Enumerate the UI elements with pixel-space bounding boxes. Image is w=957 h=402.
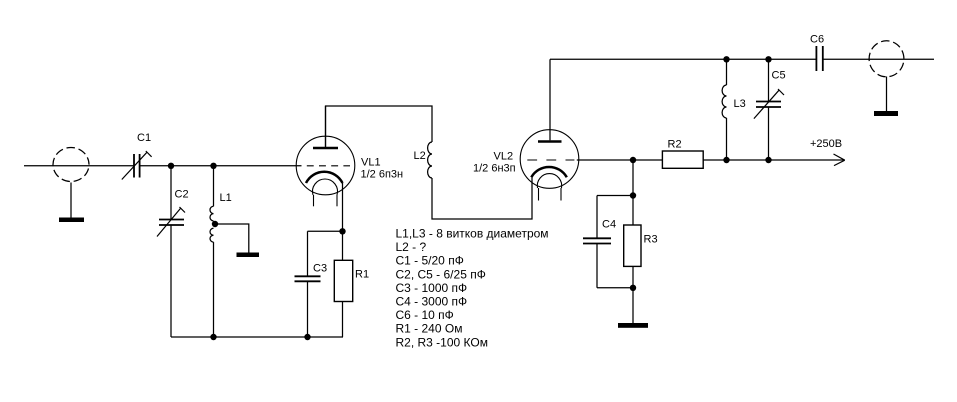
resistor R2: [662, 151, 703, 168]
wire R1 lower: [342, 302, 344, 338]
wire C4 lower: [596, 244, 598, 288]
tube VL2 cathode: [531, 167, 567, 177]
wire input horizontal: [24, 165, 134, 167]
svg-text:C6: C6: [810, 34, 824, 46]
inductor L2: [428, 142, 432, 178]
svg-text:+250В: +250В: [810, 138, 842, 150]
svg-text:C3 - 1000 пФ: C3 - 1000 пФ: [396, 281, 468, 295]
wire C1 to VL1 grid: [140, 165, 302, 167]
wire VL2 anode lead: [549, 59, 551, 140]
ground (R3): [618, 323, 648, 328]
tube VL2 grid: [527, 159, 574, 161]
tube VL1 envelope: [296, 136, 355, 195]
wire L1 branch upper: [213, 166, 215, 207]
wire L3 lower: [726, 118, 728, 160]
wire C5 upper: [768, 59, 770, 101]
wire C4 top tee: [597, 195, 633, 197]
capacitor C5: [756, 102, 781, 108]
wire VL2 anode top: [550, 58, 816, 60]
svg-text:C6 - 10 пФ: C6 - 10 пФ: [396, 308, 454, 322]
wire input connector stem: [70, 183, 72, 218]
C2 variable arrow: [157, 207, 185, 237]
wire VL1 anode to L2: [326, 106, 433, 148]
svg-text:R2, R3 -100 КОм: R2, R3 -100 КОм: [396, 335, 488, 349]
wire R3 to ground: [632, 288, 634, 323]
capacitor C1: [134, 154, 140, 178]
wire VL2 grid to R2: [577, 159, 663, 161]
parts list text: [396, 227, 549, 350]
inductor L3: [722, 85, 726, 118]
svg-text:VL2: VL2: [494, 151, 514, 163]
svg-text:C3: C3: [313, 263, 327, 275]
supply arrow head: [834, 154, 845, 166]
svg-text:VL1: VL1: [361, 157, 381, 169]
node bottom C3: [304, 334, 310, 340]
node VL1 cathode junction: [339, 228, 345, 234]
ground (output): [874, 111, 898, 116]
resistor R1: [334, 260, 352, 301]
capacitor C6: [816, 46, 822, 71]
svg-text:C1: C1: [137, 132, 151, 144]
wire C6 to output: [823, 58, 934, 60]
wire L2 to VL2 cathode: [432, 177, 532, 219]
wire L1 tap to ground: [214, 224, 249, 253]
svg-text:1/2 6н3п: 1/2 6н3п: [473, 163, 516, 175]
ground (L1 tap): [237, 253, 260, 258]
svg-text:R2: R2: [668, 139, 682, 151]
svg-text:C4: C4: [602, 219, 616, 231]
node C4 top tee: [630, 192, 636, 198]
C1 variable arrow: [122, 151, 152, 180]
svg-text:L1,L3 - 8 витков диаметром: L1,L3 - 8 витков диаметром: [396, 227, 549, 241]
node C5 bottom: [765, 157, 771, 163]
svg-text:R3: R3: [644, 234, 658, 246]
wire R1 upper: [342, 231, 344, 260]
wire C3 upper: [307, 231, 309, 276]
svg-text:C2, C5 - 6/25 пФ: C2, C5 - 6/25 пФ: [396, 267, 486, 281]
wire R3 upper: [632, 196, 634, 226]
node junction R3 branch: [630, 157, 636, 163]
node bottom L1: [210, 334, 216, 340]
wire C5 lower: [768, 107, 770, 160]
wire C4 upper: [596, 196, 598, 239]
wire R3 branch upper: [632, 160, 634, 196]
svg-text:R1: R1: [355, 269, 369, 281]
svg-text:C1 - 5/20 пФ: C1 - 5/20 пФ: [396, 254, 464, 268]
inductor L1: [210, 206, 214, 242]
node top C5: [765, 56, 771, 62]
node junction C2: [168, 163, 174, 169]
wire C2 branch upper: [170, 166, 172, 220]
tube VL1 heater: [313, 179, 338, 206]
C5 variable arrow: [754, 89, 784, 119]
tube VL1 cathode: [306, 172, 343, 183]
node L1 tap: [212, 221, 218, 227]
tube VL2 anode: [538, 140, 562, 143]
tube VL2 envelope: [520, 130, 579, 189]
svg-text:L2 - ?: L2 - ?: [396, 240, 427, 254]
capacitor C2: [159, 220, 184, 226]
svg-text:L2: L2: [414, 150, 426, 162]
node top L3: [723, 56, 729, 62]
svg-text:R1 - 240 Ом: R1 - 240 Ом: [396, 322, 463, 336]
tube VL1 grid: [307, 165, 350, 167]
svg-text:1/2 6п3н: 1/2 6п3н: [361, 169, 404, 181]
wire C2 branch lower: [170, 225, 172, 337]
wire cathode junction to C3: [308, 230, 343, 232]
node L3 bottom: [723, 157, 729, 163]
svg-text:C4 - 3000 пФ: C4 - 3000 пФ: [396, 295, 468, 309]
wire R3 lower: [632, 266, 634, 287]
wire VL1 cathode lead: [342, 183, 344, 231]
wire VL1 anode lead: [325, 106, 327, 147]
svg-text:L3: L3: [734, 98, 746, 110]
wire R2 to +250V arrow: [703, 159, 844, 161]
wire output connector stem: [886, 77, 888, 112]
tube VL2 heater: [537, 174, 561, 201]
svg-text:C5: C5: [772, 70, 786, 82]
wire L1 branch lower: [213, 242, 215, 337]
wire C4 bottom tee: [597, 287, 633, 289]
input connector X1: [53, 148, 89, 182]
wire C3 lower: [307, 281, 309, 337]
wire common bottom: [171, 336, 343, 338]
wire L3 upper: [726, 59, 728, 85]
resistor R3: [624, 225, 641, 266]
tube VL1 anode: [313, 147, 338, 150]
output connector X2: [869, 41, 904, 77]
ground (input): [59, 218, 84, 223]
capacitor C4: [583, 238, 611, 243]
node C4 bottom tee: [630, 285, 636, 291]
capacitor C3: [295, 276, 321, 281]
node junction L1: [210, 163, 216, 169]
svg-text:C2: C2: [175, 189, 189, 201]
svg-text:L1: L1: [220, 192, 232, 204]
